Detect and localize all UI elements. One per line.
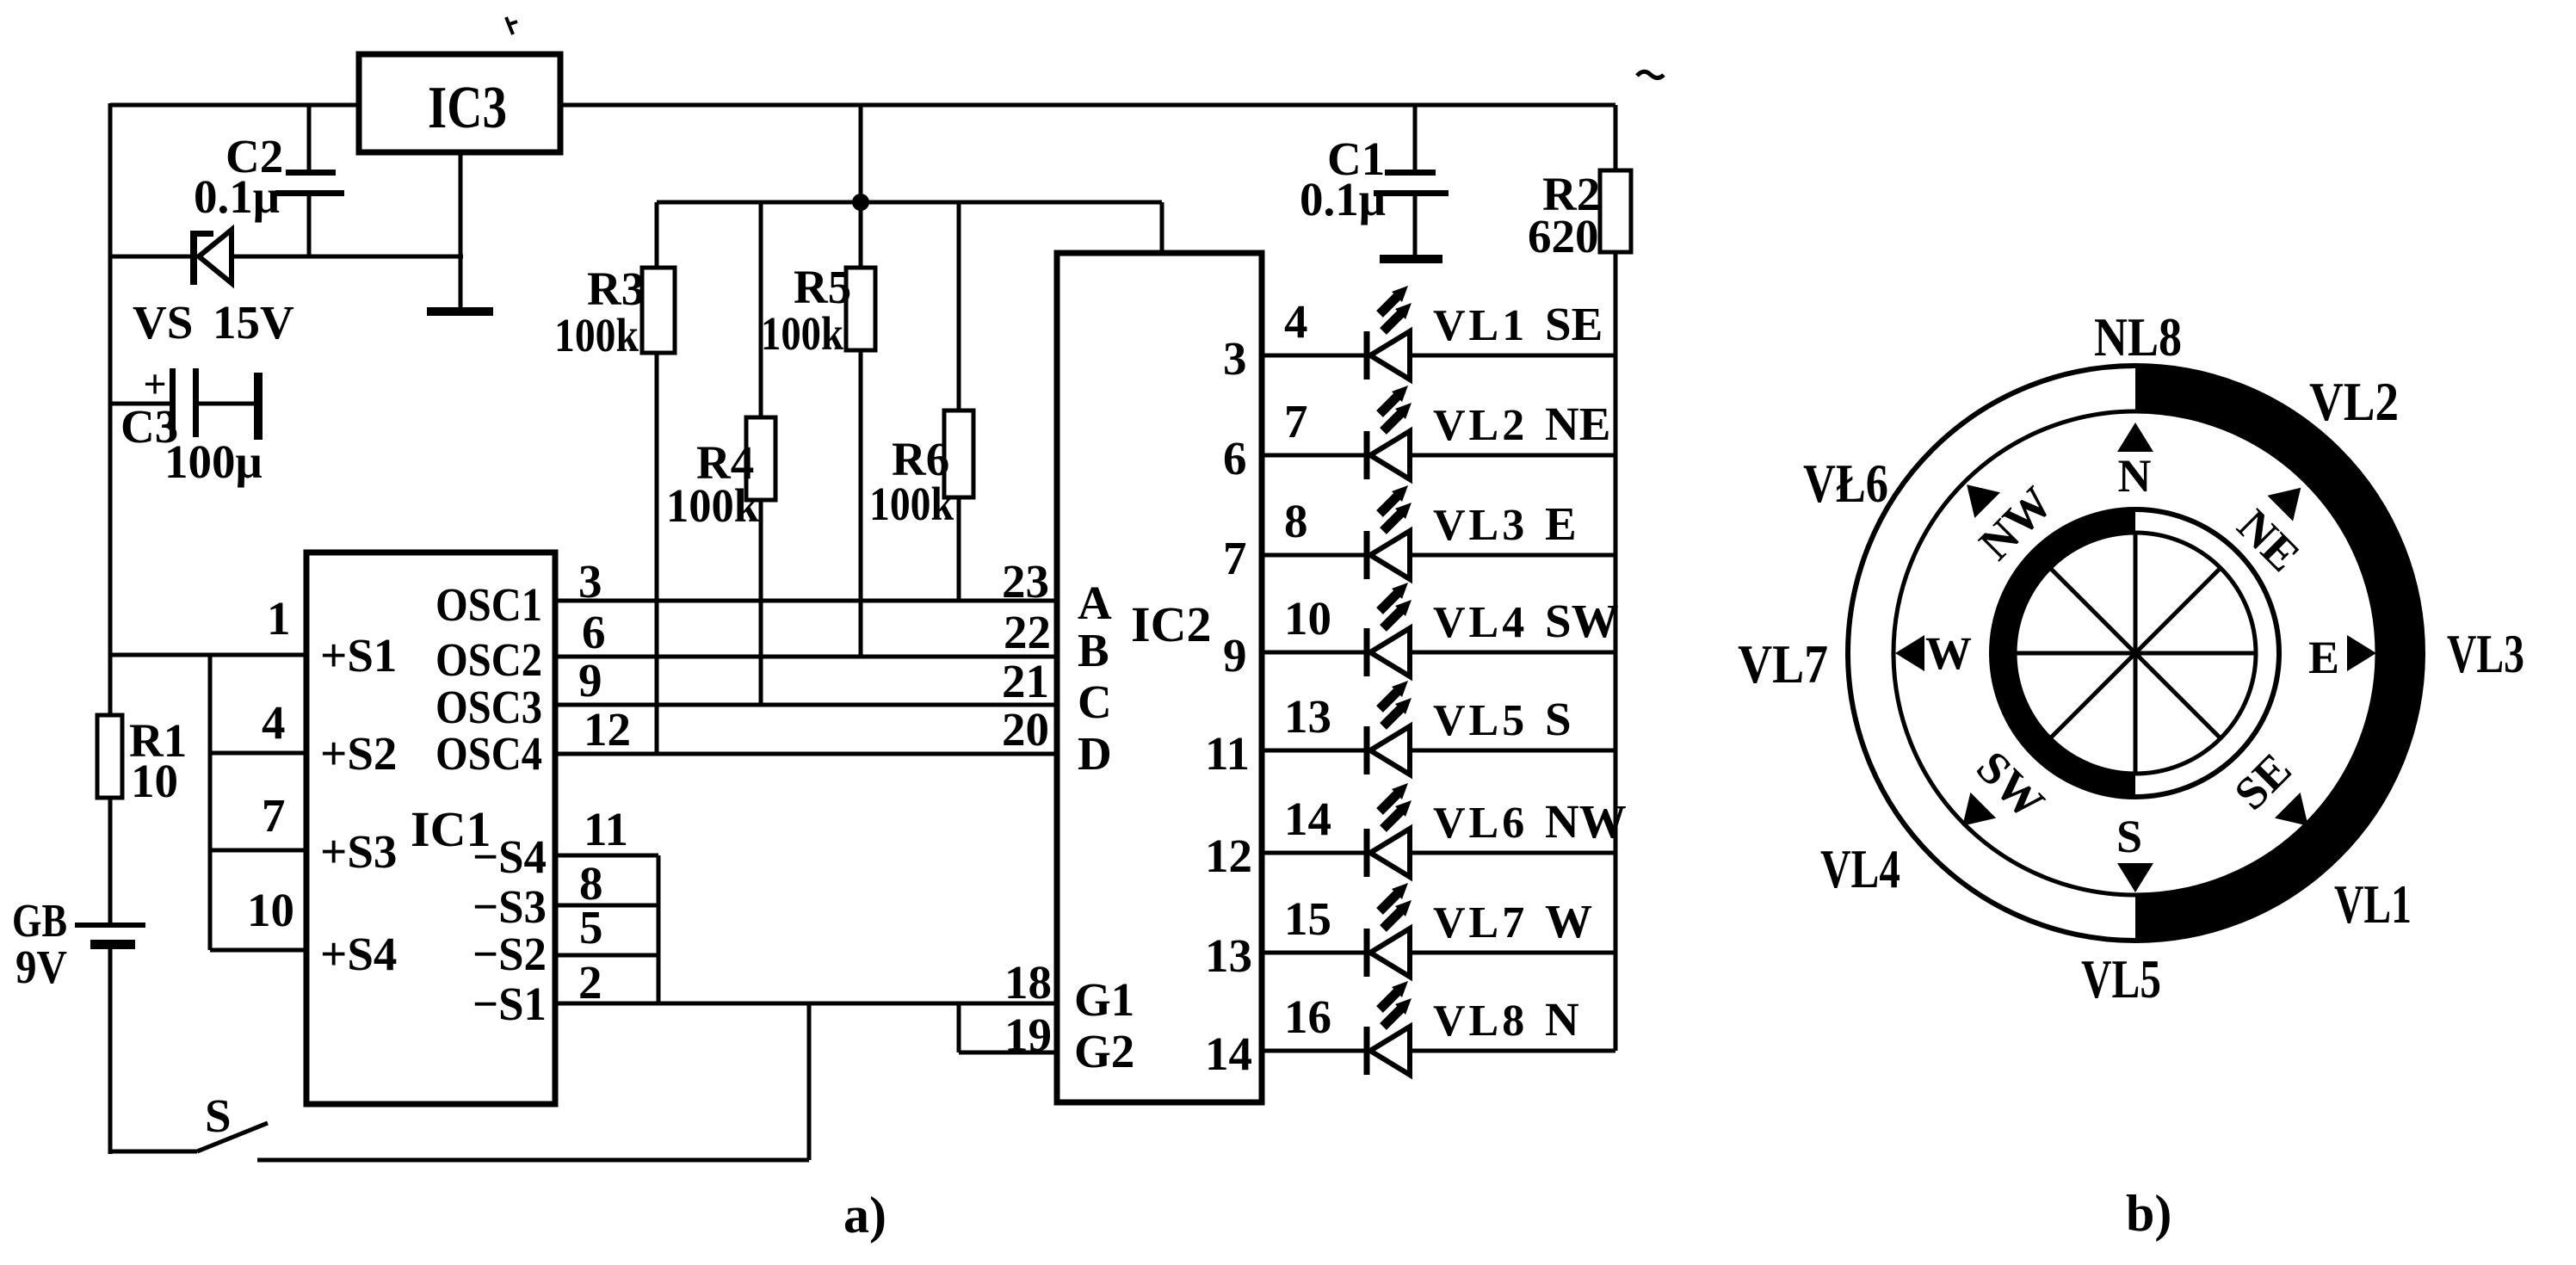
svg-text:IC2: IC2 — [1131, 596, 1211, 652]
svg-text:E: E — [2308, 632, 2339, 683]
svg-text:14: 14 — [1205, 1027, 1252, 1080]
svg-text:VL5: VL5 — [1433, 696, 1528, 745]
wire left rail upper — [108, 103, 113, 925]
svg-text:22: 22 — [1004, 606, 1051, 658]
svg-text:VS: VS — [133, 296, 193, 349]
wire resistor R4 vertical — [759, 202, 763, 705]
wire G2 stub — [959, 1051, 1057, 1055]
wire and LED VL6 row — [1262, 851, 1615, 855]
wire resistor R3 vertical — [655, 202, 659, 754]
resistor R2 body — [1600, 170, 1631, 252]
capacitor C2 top plate — [286, 170, 336, 176]
svg-text:VŁ6: VŁ6 — [1803, 453, 1888, 514]
svg-text:14: 14 — [1284, 793, 1331, 845]
switch S blade — [197, 1123, 268, 1151]
ground bar under C1 — [1380, 255, 1442, 263]
svg-text:VL1: VL1 — [1433, 301, 1528, 350]
svg-text:W: W — [1925, 627, 1972, 679]
svg-text:100k: 100k — [666, 479, 759, 532]
compass arrow NW — [1967, 484, 2000, 518]
resistor R4 body — [746, 417, 775, 500]
svg-text:6: 6 — [582, 606, 606, 658]
svg-text:+S1: +S1 — [320, 629, 397, 682]
wire top rail right segment — [560, 103, 1615, 108]
svg-text:N: N — [1545, 993, 1579, 1046]
ground bar at C3 — [254, 373, 263, 440]
svg-text:OSC4: OSC4 — [436, 727, 542, 780]
svg-text:N: N — [2118, 450, 2152, 502]
ground bar under IC3 — [427, 307, 493, 316]
capacitor C1 bottom lead — [1413, 196, 1418, 257]
svg-text:VL5: VL5 — [2081, 948, 2161, 1009]
svg-text:VL7: VL7 — [1738, 633, 1828, 694]
svg-text:13: 13 — [1284, 690, 1331, 743]
compass arrow S — [2117, 863, 2153, 892]
IC1 box — [306, 552, 555, 1104]
wire IC1 pin 5 — [555, 953, 658, 958]
resistor R1 body — [97, 715, 122, 798]
wire IC1 pin 10 — [210, 948, 306, 953]
svg-text:E: E — [1545, 497, 1577, 550]
wire right rail — [1614, 105, 1618, 1051]
svg-text:a): a) — [843, 1187, 886, 1243]
svg-text:GB: GB — [12, 894, 67, 947]
svg-text:OSC3: OSC3 — [436, 681, 542, 733]
resistor R3 body — [642, 268, 675, 353]
svg-text:VL2: VL2 — [1433, 401, 1528, 450]
svg-text:+S3: +S3 — [320, 825, 397, 878]
svg-text:4: 4 — [1284, 295, 1308, 348]
compass arrow E — [2347, 635, 2376, 671]
svg-text:23: 23 — [1002, 555, 1049, 608]
svg-text:3: 3 — [1223, 332, 1247, 385]
wire battery to switch — [110, 1150, 197, 1154]
svg-text:−S1: −S1 — [473, 978, 547, 1030]
capacitor C3 left plate — [170, 368, 176, 437]
svg-text:100μ: 100μ — [164, 435, 263, 488]
wire net A OSC1 to pin23 — [555, 599, 1057, 603]
wire G2 branch vertical — [957, 1003, 961, 1052]
capacitor C2 top lead — [307, 105, 312, 170]
wire VS row — [110, 255, 463, 259]
svg-text:SW: SW — [1545, 595, 1619, 647]
capacitor C3 right plate — [193, 368, 199, 437]
compass arrow SW — [1962, 793, 1996, 826]
svg-text:b): b) — [2126, 1185, 2171, 1242]
svg-text:NL8: NL8 — [2094, 306, 2182, 367]
svg-text:7: 7 — [1284, 395, 1308, 447]
wire and LED VL5 row — [1262, 749, 1615, 753]
svg-text:19: 19 — [1004, 1009, 1052, 1061]
svg-text:NE: NE — [2227, 499, 2309, 581]
svg-text:21: 21 — [1002, 655, 1049, 707]
svg-text:C: C — [1078, 676, 1112, 728]
compass outer ring inner circle — [1893, 411, 2377, 895]
compass arrow N — [2117, 423, 2153, 452]
battery GB short plate — [90, 940, 135, 949]
svg-text:SE: SE — [1545, 298, 1603, 350]
wire and LED VL4 row — [1262, 651, 1615, 655]
svg-text:11: 11 — [1205, 727, 1250, 780]
IC3 box — [359, 54, 560, 152]
svg-text:G2: G2 — [1074, 1025, 1134, 1077]
wire top feed vertical — [859, 105, 863, 202]
svg-text:D: D — [1078, 727, 1112, 780]
svg-text:VL4: VL4 — [1820, 838, 1900, 899]
svg-text:11: 11 — [584, 803, 628, 855]
svg-text:8: 8 — [1284, 495, 1308, 547]
capacitor C1 bottom plate — [1374, 190, 1449, 196]
svg-text:5: 5 — [579, 901, 603, 953]
svg-text:620: 620 — [1528, 210, 1599, 262]
wire top rail left segment — [110, 103, 359, 108]
svg-text:13: 13 — [1205, 929, 1252, 982]
wire net D OSC4 to pin20 — [555, 752, 1057, 756]
svg-text:0.1μ: 0.1μ — [1300, 173, 1386, 225]
wire IC1 pin 11 — [555, 854, 658, 858]
wire net C OSC3 to pin21 — [555, 703, 1057, 707]
svg-text:9: 9 — [578, 654, 602, 707]
wire vertical switch net — [807, 1003, 812, 1160]
svg-text:VL3: VL3 — [2447, 623, 2524, 684]
svg-text:18: 18 — [1004, 956, 1052, 1009]
battery GB long plate — [75, 923, 145, 928]
compass outer circle — [1848, 366, 2423, 941]
svg-text:12: 12 — [1205, 830, 1252, 882]
wire resistor R6 vertical — [957, 202, 961, 601]
zener diode VS cathode bar — [190, 231, 197, 285]
svg-text:−S4: −S4 — [473, 830, 547, 883]
wire IC1 pin 7 — [210, 848, 306, 853]
wire -S bus vertical — [657, 855, 661, 1003]
junction dot — [852, 194, 869, 211]
wire junction rail — [657, 201, 1162, 205]
svg-text:OSC2: OSC2 — [436, 633, 542, 686]
wire IC1 pin 1 — [110, 653, 306, 657]
svg-text:10: 10 — [1284, 592, 1331, 645]
svg-text:6: 6 — [1223, 432, 1247, 484]
svg-text:1: 1 — [267, 592, 291, 645]
svg-text:10: 10 — [247, 884, 294, 936]
wire resistor R5 vertical — [859, 202, 863, 657]
compass inner circle — [2015, 533, 2256, 774]
svg-text:VL8: VL8 — [1433, 997, 1528, 1046]
compass inner ring black left half — [1992, 509, 2135, 797]
svg-text:S: S — [205, 1089, 232, 1142]
svg-text:+S4: +S4 — [320, 928, 397, 980]
wire and LED VL1 row — [1262, 354, 1615, 358]
svg-text:0.1μ: 0.1μ — [194, 170, 280, 223]
wire and LED VL3 row — [1262, 553, 1615, 558]
svg-text:S: S — [2116, 811, 2142, 862]
svg-text:VL3: VL3 — [1433, 501, 1528, 550]
compass outer ring black right half — [2135, 366, 2423, 941]
svg-text:7: 7 — [262, 789, 286, 842]
svg-text:100k: 100k — [554, 309, 639, 361]
wire IC2 vdd feed — [1160, 202, 1164, 253]
compass arrow NE — [2267, 488, 2301, 521]
compass spokes — [2134, 533, 2138, 653]
svg-text:VL6: VL6 — [1433, 799, 1528, 848]
scan speck 1 — [506, 17, 517, 34]
capacitor C1 top lead — [1413, 105, 1418, 170]
svg-text:−S3: −S3 — [473, 880, 547, 933]
IC3 ground pin wire — [459, 152, 463, 307]
scan speck 2 — [1637, 71, 1664, 77]
zener diode VS cathode top hook — [196, 231, 213, 237]
capacitor C2 bottom plate — [275, 190, 344, 196]
svg-text:G1: G1 — [1074, 973, 1134, 1026]
svg-text:A: A — [1078, 577, 1112, 629]
wire IC1 pin 8 — [555, 904, 658, 908]
svg-text:R3: R3 — [587, 262, 645, 315]
svg-text:OSC1: OSC1 — [436, 578, 542, 631]
wire and LED VL8 row — [1262, 1049, 1615, 1053]
compass arrow W — [1895, 635, 1924, 671]
IC2 box — [1057, 253, 1262, 1102]
capacitor C3 left lead — [110, 402, 170, 406]
compass arrow SE — [2275, 793, 2308, 826]
svg-text:R5: R5 — [794, 261, 851, 313]
wire IC1 pin 4 — [210, 751, 306, 756]
svg-text:9: 9 — [1223, 629, 1247, 682]
svg-text:+S2: +S2 — [320, 727, 397, 780]
resistor R5 body — [846, 268, 875, 350]
wire and LED VL7 row — [1262, 951, 1615, 955]
compass inner ring outer circle — [1992, 509, 2279, 797]
svg-text:16: 16 — [1284, 990, 1331, 1043]
resistor R6 body — [944, 410, 973, 497]
svg-text:10: 10 — [131, 755, 178, 807]
svg-text:9V: 9V — [15, 941, 67, 993]
wire left rail lower — [108, 945, 113, 1154]
svg-text:−S2: −S2 — [473, 928, 547, 980]
svg-text:VL2: VL2 — [2309, 371, 2399, 432]
svg-text:20: 20 — [1002, 703, 1049, 756]
zener diode VS triangle — [199, 230, 232, 283]
svg-text:100k: 100k — [869, 478, 954, 530]
capacitor C1 top plate — [1385, 170, 1436, 176]
svg-text:VL7: VL7 — [1433, 898, 1528, 947]
svg-text:NW: NW — [1545, 795, 1627, 848]
capacitor C3 right lead — [199, 402, 254, 406]
capacitor C2 bottom lead — [307, 196, 312, 256]
svg-text:VL1: VL1 — [2334, 873, 2412, 935]
svg-text:100k: 100k — [761, 307, 843, 360]
svg-text:B: B — [1078, 624, 1109, 676]
svg-text:12: 12 — [584, 703, 631, 756]
svg-text:15: 15 — [1284, 892, 1331, 945]
wire net B OSC2 to pin22 — [555, 655, 1057, 659]
svg-text:4: 4 — [262, 696, 286, 749]
svg-text:IC3: IC3 — [428, 75, 507, 141]
svg-text:2: 2 — [578, 956, 602, 1009]
svg-text:15V: 15V — [213, 296, 294, 349]
svg-text:7: 7 — [1223, 532, 1247, 584]
svg-text:3: 3 — [578, 555, 602, 608]
wire and LED VL2 row — [1262, 454, 1615, 458]
svg-text:S: S — [1545, 693, 1572, 745]
svg-text:VL4: VL4 — [1433, 598, 1528, 647]
wire IC1 pin 2 to G1 — [555, 1002, 1057, 1006]
svg-text:NE: NE — [1545, 398, 1610, 450]
wire IC1 left branch vertical — [208, 655, 213, 950]
svg-text:W: W — [1545, 895, 1592, 947]
wire switch to G1 net — [257, 1158, 809, 1163]
